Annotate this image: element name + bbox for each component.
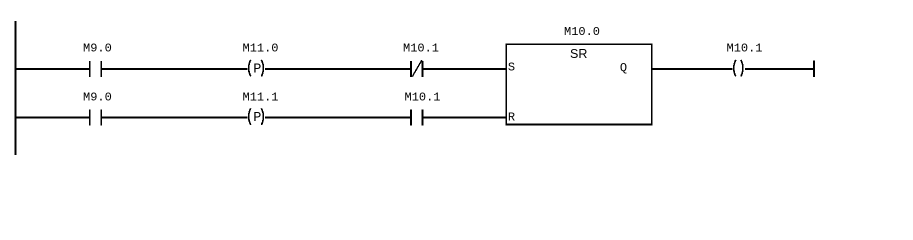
wire coil M10.1 to end tick [745,68,815,70]
edge element (P) M11.1 [249,108,264,126]
svg-text:M9.0: M9.0 [83,42,112,56]
svg-text:SR: SR [570,47,587,61]
svg-text:M11.0: M11.0 [243,42,279,56]
wire SR box Q output to coil M10.1 [652,68,732,70]
svg-text:P: P [253,62,261,77]
svg-text:M11.1: M11.1 [243,91,279,105]
contact M10.1 rung2 (NO) [410,110,424,126]
svg-text:M9.0: M9.0 [83,91,112,105]
svg-text:M10.1: M10.1 [727,42,763,56]
svg-text:P: P [253,111,261,126]
contact M10.1 rung1 (NC) [410,60,424,77]
wire (P) M11.1 to contact M10.1 rung2 [265,117,411,119]
SR flip-flop box [506,44,652,124]
left power rail [14,21,16,155]
rung1 end tick [813,60,815,77]
wire rung1 rail to contact M9.0 [14,68,90,70]
svg-text:M10.1: M10.1 [405,91,441,105]
svg-text:R: R [508,111,515,125]
wire contact M9.0 to (P) M11.0 [102,68,247,70]
svg-text:Q: Q [620,61,627,75]
svg-text:M10.0: M10.0 [564,25,600,39]
coil M10.1 ( ) [734,60,743,77]
contact M9.0 rung1 (NO) [89,61,102,77]
edge element (P) M11.0 [249,60,264,78]
svg-text:M10.1: M10.1 [403,42,439,56]
wire contact M9.0 rung2 to (P) M11.1 [102,117,247,119]
wire contact M10.1 NC to SR box S input [424,68,507,70]
wire contact M10.1 rung2 to SR box R input [424,117,507,119]
wire (P) M11.0 to contact M10.1 NC [265,68,411,70]
wire rung2 rail to contact M9.0 [14,117,90,119]
contact M9.0 rung2 (NO) [89,110,102,126]
svg-text:S: S [508,61,515,75]
